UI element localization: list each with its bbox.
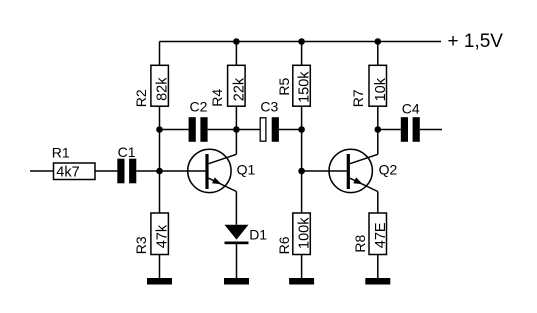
wire Q2 emitter diagonal [350,178,378,191]
resistor R2 [151,65,169,106]
svg-text:150k: 150k [297,71,313,103]
svg-text:R3: R3 [133,236,149,254]
transistor Q1 [188,149,231,192]
wire node C down to Q1 collector [235,130,237,155]
wire R5 bottom to node D [301,106,303,129]
wire Q1 base [160,170,206,172]
wire R1 to C1 [95,170,117,172]
junction rail over R4 [233,38,240,45]
svg-text:R8: R8 [352,234,368,252]
wire R6 bottom to ground [301,255,303,279]
svg-text:22k: 22k [232,77,248,101]
resistor R5 [293,65,311,106]
capacitor C2 [189,117,208,142]
Q1 emitter arrow [212,177,223,187]
svg-text:47E: 47E [373,222,389,248]
wire node A down to R3 top [159,171,161,213]
wire Q2 emitter down to R8 [377,192,379,214]
junction node B [156,126,163,133]
resistor R1 [54,163,96,180]
svg-text:D1: D1 [249,226,267,242]
svg-text:Q2: Q2 [379,162,398,178]
diode D1 [225,225,249,240]
wire rail to R5 top [301,42,303,66]
resistor R4 [228,65,246,106]
svg-text:Q1: Q1 [237,162,256,178]
svg-text:100k: 100k [297,217,313,249]
wire node C to C3 [236,129,259,131]
Q2 emitter arrow [353,177,364,187]
wire R4 bottom to node C [235,106,237,129]
wire C4 to output [420,129,442,131]
wire Q1 emitter diagonal [209,178,237,191]
wire C1 to node A [136,170,159,172]
junction node D [298,126,305,133]
wire Q2 base [302,170,347,172]
svg-text:R4: R4 [209,89,225,107]
svg-text:C3: C3 [260,99,278,115]
wire rail to R2 top [159,42,161,66]
capacitor C4 [401,117,420,142]
junction node F [375,126,382,133]
svg-text:R2: R2 [133,89,149,107]
resistor R6 [293,213,311,255]
wire Q2 collector diagonal [350,154,378,163]
svg-text:R7: R7 [350,89,366,107]
wire rail to R7 top [377,42,379,66]
wire rail to R4 top [235,42,237,66]
svg-text:R5: R5 [276,77,292,95]
wire R8 bottom to ground [377,255,379,279]
wire node F down to Q2 collector [377,130,379,155]
svg-text:82k: 82k [155,77,171,101]
wire node D down to node E [301,130,303,172]
resistor R8 [369,213,387,255]
ground under D1 [224,278,249,285]
wire R2 bottom to node B [159,106,161,129]
resistor R3 [151,213,169,255]
junction rail over R7 [375,38,382,45]
wire top rail [160,41,442,43]
wire node B to C2 [160,129,189,131]
wire C2 to node C [208,129,237,131]
wire node B down to node A [159,130,161,172]
junction node C [233,126,240,133]
ground under R3 [147,278,172,285]
junction rail over R5 [298,38,305,45]
svg-text:+ 1,5V: + 1,5V [448,31,504,52]
svg-text:47k: 47k [155,224,171,248]
ground under R6 [289,278,314,285]
junction node A [156,168,163,175]
wire node F to C4 [378,129,401,131]
wire R7 bottom to node F [377,106,379,129]
wire node E down to R6 top [301,171,303,213]
capacitor C1 [117,159,136,184]
svg-text:R6: R6 [276,236,292,254]
resistor R7 [369,65,387,106]
wire Q1 collector diagonal [209,154,237,163]
ground under R8 [365,278,390,285]
wire R3 bottom to ground [159,255,161,279]
wire input left to R1 [30,170,54,172]
wire D1 cathode to ground [236,244,238,278]
svg-text:10k: 10k [373,77,389,101]
svg-text:C1: C1 [118,144,136,160]
wire C3 to node D [279,129,302,131]
transistor Q2 [329,149,372,192]
capacitor C3 [260,118,266,141]
svg-text:4k7: 4k7 [56,165,79,181]
svg-text:C4: C4 [402,100,420,116]
junction node E [298,168,305,175]
svg-text:R1: R1 [52,145,70,161]
wire Q1 emitter down to D1 [235,192,237,225]
svg-text:C2: C2 [190,99,208,115]
